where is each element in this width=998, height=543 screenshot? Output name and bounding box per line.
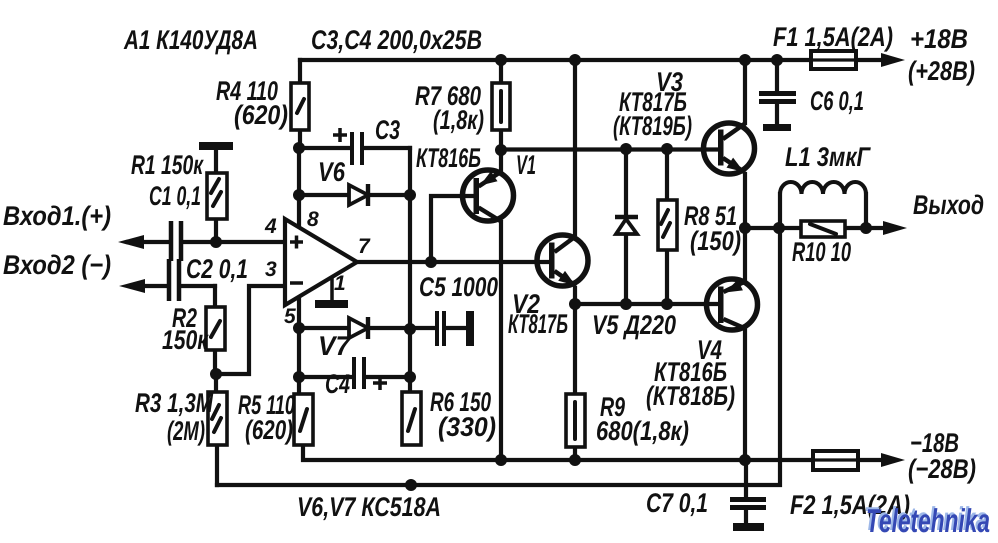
svg-text:F1 1,5A(2A): F1 1,5A(2A) [773,22,893,52]
svg-text:V6,V7 КС518А: V6,V7 КС518А [297,492,441,522]
svg-text:Выход: Выход [913,190,984,220]
svg-text:R3 1,3M: R3 1,3M [135,388,213,418]
svg-text:+18В: +18В [910,24,968,54]
svg-text:Teletehnika: Teletehnika [866,502,990,539]
svg-text:C5 1000: C5 1000 [419,272,498,302]
svg-text:V1: V1 [516,150,536,180]
svg-text:(330): (330) [438,412,496,442]
svg-text:680(1,8к): 680(1,8к) [596,416,689,446]
svg-text:C7 0,1: C7 0,1 [646,488,708,518]
svg-text:5: 5 [284,305,296,328]
svg-text:(−28В): (−28В) [908,454,976,484]
svg-text:V6: V6 [318,157,346,187]
svg-text:3: 3 [265,258,277,281]
svg-text:(620): (620) [234,100,288,130]
svg-text:R10 10: R10 10 [792,237,851,267]
svg-text:V7: V7 [318,331,352,361]
svg-text:8: 8 [307,208,319,231]
svg-text:(КТ818Б): (КТ818Б) [646,381,735,411]
svg-text:(150): (150) [690,226,741,256]
svg-text:КТ817Б: КТ817Б [508,309,568,339]
svg-text:C4: C4 [325,369,350,399]
svg-text:7: 7 [358,235,371,258]
svg-text:Вход2 (−): Вход2 (−) [3,250,111,280]
svg-text:C3,C4 200,0x25В: C3,C4 200,0x25В [311,25,482,55]
svg-text:A1 К140УД8А: A1 К140УД8А [123,25,258,55]
svg-text:(620): (620) [245,415,293,445]
svg-text:(КТ819Б): (КТ819Б) [613,111,692,141]
svg-text:L1 3мкГ: L1 3мкГ [785,142,871,172]
svg-text:КТ816Б: КТ816Б [416,143,481,173]
svg-text:C3: C3 [375,115,400,145]
svg-text:1: 1 [334,272,346,295]
svg-text:(1,8к): (1,8к) [433,105,484,135]
svg-text:V5 Д220: V5 Д220 [592,310,676,340]
svg-text:Вход1.(+): Вход1.(+) [3,201,111,231]
svg-text:(+28В): (+28В) [908,56,975,86]
svg-text:150к: 150к [162,325,209,355]
svg-text:4: 4 [264,215,277,238]
svg-text:(2М): (2М) [167,416,205,446]
svg-text:R1 150к: R1 150к [131,150,204,180]
svg-text:C2 0,1: C2 0,1 [186,254,248,284]
svg-text:C1 0,1: C1 0,1 [149,181,201,211]
svg-text:C6 0,1: C6 0,1 [810,86,864,116]
